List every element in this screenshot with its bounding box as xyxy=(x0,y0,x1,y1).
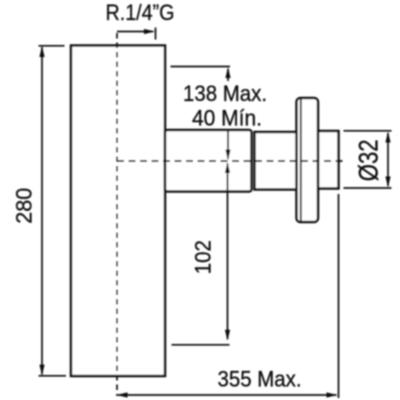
arrow 355 right xyxy=(327,392,338,397)
body rectangle xyxy=(71,46,165,377)
arrow O32 up xyxy=(385,132,390,143)
arrow 102 up xyxy=(225,162,230,173)
spout pipe section A xyxy=(165,130,252,192)
dim 280: top extension tick xyxy=(39,45,65,47)
arrow 138/40 down xyxy=(225,150,230,161)
dim O32: bottom extension line xyxy=(344,187,392,189)
arrow 280 down xyxy=(39,365,44,376)
dim 102: vertical dimension line xyxy=(227,164,229,340)
svg-text:102: 102 xyxy=(191,240,216,274)
dim R.1/4"G: right extension tick xyxy=(155,28,157,40)
arrow O32 down xyxy=(385,177,390,188)
pipe section C xyxy=(318,131,339,189)
dim 280: bottom extension tick xyxy=(39,375,67,377)
dim 355: dimension line xyxy=(118,394,337,396)
arrow R.1/4 right xyxy=(144,29,155,34)
dim 355: right extension line xyxy=(338,194,340,398)
svg-text:138 Max.: 138 Max. xyxy=(183,81,267,106)
horizontal axis centerline (dashed) xyxy=(117,160,347,162)
dim 138/40: vertical dimension line upper stub xyxy=(227,69,229,81)
arrow 355 left xyxy=(117,392,128,397)
svg-text:R.1/4”G: R.1/4”G xyxy=(106,0,175,25)
arrow 102 down xyxy=(225,330,230,341)
pipe section B xyxy=(255,132,298,190)
dim 102: bottom extension line xyxy=(172,344,230,346)
svg-text:355 Max.: 355 Max. xyxy=(218,367,302,392)
svg-text:Ø32: Ø32 xyxy=(355,139,385,181)
dim 138/40: horizontal reference line xyxy=(171,66,231,68)
dim O32: top extension line xyxy=(344,130,392,132)
arrow 138/40 up xyxy=(225,67,230,78)
dim O32: dimension line xyxy=(387,133,389,186)
dim R.1/4"G: dimension line xyxy=(117,31,153,33)
flange inner edge line xyxy=(300,99,302,221)
dim 138/40: vertical dimension line lower segment xyxy=(227,131,229,159)
svg-text:40 Mín.: 40 Mín. xyxy=(192,106,262,131)
vertical axis centerline (dashed) xyxy=(116,33,118,396)
dim 280: dimension line xyxy=(41,47,43,375)
svg-text:280: 280 xyxy=(12,188,37,224)
wall flange xyxy=(297,98,319,222)
arrow 280 up xyxy=(39,46,44,57)
